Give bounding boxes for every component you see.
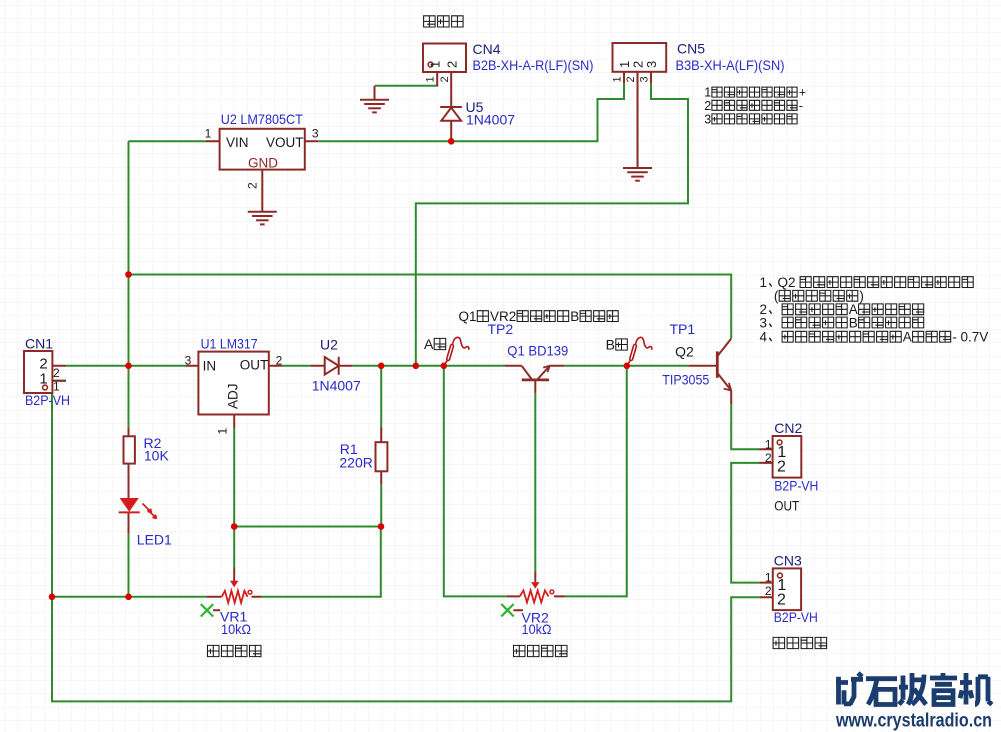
svg-text:2: 2: [704, 99, 711, 113]
svg-text:2: 2: [246, 182, 260, 189]
svg-text:+: +: [799, 86, 806, 100]
svg-text:TIP3055: TIP3055: [662, 371, 709, 387]
svg-text:1N4007: 1N4007: [466, 112, 515, 128]
svg-text:CN1: CN1: [25, 336, 53, 352]
svg-text:B3B-XH-A(LF)(SN): B3B-XH-A(LF)(SN): [676, 57, 785, 73]
svg-text:B2P-VH: B2P-VH: [774, 609, 818, 625]
svg-text:2: 2: [445, 61, 460, 68]
svg-text:2: 2: [765, 451, 772, 465]
svg-text:Q1 BD139: Q1 BD139: [507, 343, 568, 359]
svg-text:B: B: [570, 309, 579, 324]
svg-text:1: 1: [760, 275, 768, 290]
svg-text:CN3: CN3: [774, 553, 802, 569]
svg-text:Q2: Q2: [778, 275, 796, 290]
svg-text:Q1: Q1: [459, 309, 477, 324]
svg-text:1: 1: [704, 86, 711, 100]
svg-text:B2P-VH: B2P-VH: [774, 478, 818, 494]
svg-text:3: 3: [760, 315, 768, 330]
svg-text:GND: GND: [248, 156, 278, 171]
svg-text:1: 1: [425, 76, 437, 82]
svg-text:): ): [859, 289, 864, 304]
svg-text:IN: IN: [203, 359, 217, 374]
svg-text:CN4: CN4: [473, 41, 501, 57]
svg-text:VOUT: VOUT: [266, 135, 304, 150]
svg-text:(: (: [774, 289, 779, 304]
svg-text:1: 1: [216, 428, 230, 435]
svg-text:ADJ: ADJ: [226, 383, 241, 409]
svg-text:TP1: TP1: [670, 321, 696, 337]
svg-text:1: 1: [765, 570, 772, 584]
svg-text:B2P-VH: B2P-VH: [25, 392, 70, 408]
svg-text:2: 2: [625, 76, 637, 82]
svg-text:OUT: OUT: [240, 358, 269, 373]
svg-text:VR2: VR2: [490, 309, 516, 324]
svg-text:B: B: [849, 315, 858, 330]
svg-text:1: 1: [39, 371, 47, 388]
svg-text:3: 3: [639, 76, 651, 82]
svg-text:2: 2: [276, 354, 283, 368]
svg-text:10kΩ: 10kΩ: [522, 621, 552, 637]
svg-text:220R: 220R: [339, 454, 372, 470]
svg-text:10K: 10K: [144, 448, 170, 464]
svg-text:2: 2: [777, 459, 786, 476]
svg-text:1: 1: [53, 380, 60, 394]
svg-text:A: A: [903, 330, 912, 345]
svg-text:www.crystalradio.cn: www.crystalradio.cn: [835, 711, 992, 732]
svg-text:B2B-XH-A-R(LF)(SN): B2B-XH-A-R(LF)(SN): [473, 57, 594, 73]
svg-text:1: 1: [612, 76, 624, 82]
svg-text:2: 2: [765, 584, 772, 598]
svg-text:B: B: [606, 337, 615, 353]
svg-text:2: 2: [777, 592, 786, 609]
svg-text:A: A: [424, 336, 434, 352]
svg-text:1: 1: [765, 437, 772, 451]
svg-text:LED1: LED1: [137, 532, 172, 548]
svg-text:3: 3: [185, 354, 192, 368]
svg-text:Q2: Q2: [675, 344, 694, 360]
svg-text:U2 LM7805CT: U2 LM7805CT: [221, 111, 303, 127]
svg-text:OUT: OUT: [774, 498, 799, 514]
svg-text:3: 3: [704, 112, 711, 126]
svg-text:U1 LM317: U1 LM317: [201, 336, 258, 352]
svg-text:4: 4: [760, 330, 768, 345]
svg-text:1N4007: 1N4007: [312, 378, 361, 394]
svg-text:2: 2: [53, 366, 60, 380]
svg-text:-: -: [799, 99, 803, 113]
svg-text:3: 3: [312, 127, 319, 141]
svg-text:1: 1: [428, 61, 443, 68]
svg-text:CN2: CN2: [774, 420, 802, 436]
svg-text:1: 1: [205, 127, 212, 141]
svg-text:3: 3: [644, 61, 659, 68]
svg-text:VIN: VIN: [226, 135, 249, 150]
svg-text:2: 2: [439, 76, 451, 82]
svg-text:U2: U2: [320, 337, 338, 353]
svg-text:CN5: CN5: [677, 41, 705, 57]
svg-text:10kΩ: 10kΩ: [221, 621, 251, 637]
svg-text:- 0.7V: - 0.7V: [952, 330, 988, 345]
